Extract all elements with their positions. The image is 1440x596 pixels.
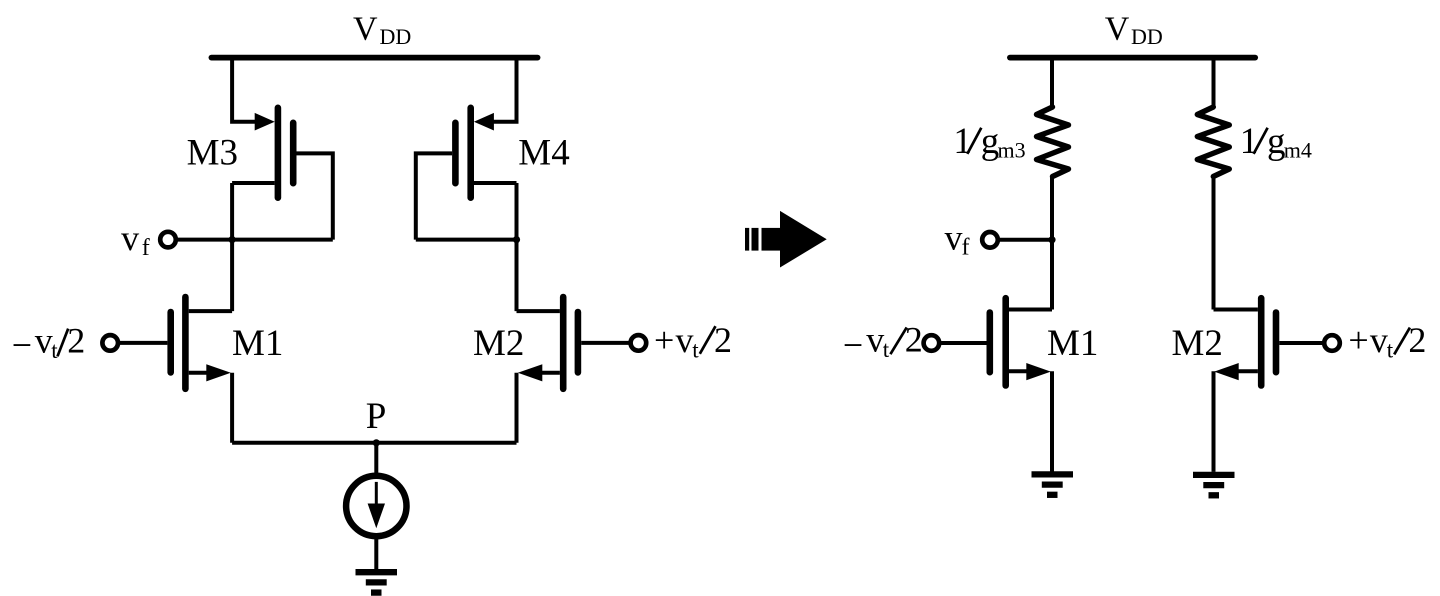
wire: -vt/2 to M1 gate xyxy=(120,341,167,345)
terminal -vt/2 (left) xyxy=(102,335,118,351)
svg-text:g: g xyxy=(981,121,1000,162)
wire: resistor 1/gm4 to M2 drain xyxy=(1212,177,1216,310)
svg-text:1: 1 xyxy=(953,121,972,162)
svg-text:v: v xyxy=(945,218,963,258)
transistor M2 xyxy=(518,297,578,389)
wire: node vf to M4 side xyxy=(416,238,517,242)
wire: node vf horizontal (left circuit) xyxy=(178,238,333,242)
svg-text:2: 2 xyxy=(905,320,923,360)
resistor 1/gm4 xyxy=(1197,107,1229,177)
terminal +vt/2 (right) xyxy=(1324,335,1340,351)
terminal vf (left) xyxy=(160,232,176,248)
svg-text:v: v xyxy=(866,320,884,360)
svg-text:t: t xyxy=(883,337,890,362)
transistor M3 xyxy=(255,108,294,198)
svg-text:M1: M1 xyxy=(1047,323,1098,364)
wire: M2 source to ground (right) xyxy=(1212,371,1216,472)
wire: M2 source down to tail node xyxy=(515,373,519,443)
junction node vf (right) xyxy=(1048,236,1055,243)
wire: node P to current source xyxy=(374,443,378,476)
svg-text:2: 2 xyxy=(1408,320,1426,360)
transistor M1 xyxy=(171,297,231,389)
wire: VDD to M4 source xyxy=(491,58,517,122)
wire: VDD to resistor 1/gm3 xyxy=(1050,58,1054,107)
svg-text:m3: m3 xyxy=(998,138,1026,163)
resistor 1/gm3 xyxy=(1037,107,1069,177)
svg-text:−: − xyxy=(843,325,863,365)
svg-text:v: v xyxy=(676,320,694,360)
svg-text:1: 1 xyxy=(1240,121,1259,162)
terminal vf (right) xyxy=(982,232,998,248)
transistor M4 xyxy=(455,108,494,198)
label 1/gm4 xyxy=(1240,121,1312,162)
wire: M2 gate to terminal xyxy=(581,341,629,345)
wire: M2 source lead (right) xyxy=(1233,369,1258,373)
wire: -vt/2 to M1 gate (right) xyxy=(941,341,986,345)
svg-text:+: + xyxy=(1348,320,1368,360)
svg-text:M4: M4 xyxy=(518,133,569,174)
svg-text:DD: DD xyxy=(380,24,412,49)
label VDD (right) xyxy=(1105,10,1163,49)
svg-text:+: + xyxy=(654,320,674,360)
junction node P xyxy=(373,439,380,446)
ground (M1 right) xyxy=(1032,474,1074,494)
label vf (left) xyxy=(121,218,150,261)
svg-text:M1: M1 xyxy=(232,323,283,364)
svg-text:V: V xyxy=(1105,10,1130,47)
wire: M3 gate to node vf xyxy=(297,153,333,239)
ground (tail current source) xyxy=(356,572,398,592)
label 1/gm3 xyxy=(953,121,1025,162)
terminal -vt/2 (right) xyxy=(924,335,940,351)
svg-text:v: v xyxy=(1370,320,1388,360)
label -vt/2 (right) xyxy=(843,320,923,365)
wire: M1 source down to tail node xyxy=(230,373,234,443)
svg-text:V: V xyxy=(353,10,378,47)
svg-text:f: f xyxy=(962,235,970,261)
label VDD (left) xyxy=(353,10,411,49)
wire: M4 drain / M2 drain vertical xyxy=(515,183,519,311)
svg-text:m4: m4 xyxy=(1284,138,1312,163)
wire: M2 drain lead xyxy=(517,309,560,313)
ground (M2 right) xyxy=(1193,475,1235,495)
svg-text:g: g xyxy=(1267,121,1286,162)
label +vt/2 (right) xyxy=(1348,320,1426,363)
wire: M4 gate to node vf xyxy=(416,153,452,239)
wire: VDD to M3 source xyxy=(232,58,258,122)
svg-text:DD: DD xyxy=(1131,24,1163,49)
wire: VDD to resistor 1/gm4 xyxy=(1212,58,1216,107)
wire: M2 source lead xyxy=(535,371,560,375)
wire: M2 gate to terminal (right) xyxy=(1279,341,1322,345)
wire: M3 drain lead xyxy=(232,181,275,185)
wire: vf terminal to node (right) xyxy=(1000,238,1052,242)
current source I xyxy=(346,476,406,536)
svg-text:t: t xyxy=(51,338,58,363)
svg-text:M2: M2 xyxy=(473,323,524,364)
junction node vf (left) xyxy=(229,236,236,243)
svg-text:−: − xyxy=(12,325,32,365)
label +vt/2 (left) xyxy=(654,320,732,363)
svg-text:2: 2 xyxy=(714,320,732,360)
svg-text:t: t xyxy=(1387,338,1394,363)
wire: resistor 1/gm3 to M1 drain xyxy=(1050,177,1054,310)
wire: M1 source lead xyxy=(189,371,214,375)
big implication arrow xyxy=(745,211,827,268)
transistor M1 (right) xyxy=(990,298,1051,385)
VDD rail (right circuit) xyxy=(1010,55,1255,61)
svg-text:t: t xyxy=(692,337,699,362)
svg-text:v: v xyxy=(35,321,53,361)
VDD rail (left circuit) xyxy=(211,55,537,61)
wire: current source to ground xyxy=(374,536,378,569)
svg-text:f: f xyxy=(142,235,150,261)
wire: M1 source lead (right) xyxy=(1009,369,1034,373)
wire: tail line node P xyxy=(232,441,516,445)
wire: M1 source to ground (right) xyxy=(1050,371,1054,472)
svg-text:P: P xyxy=(366,396,387,437)
label vf (right) xyxy=(945,218,970,261)
transistor M2 (right) xyxy=(1214,298,1276,385)
wire: M1 drain lead (right) xyxy=(1009,308,1052,312)
svg-text:v: v xyxy=(121,218,139,258)
wire: M3 drain / M1 drain vertical xyxy=(230,183,234,311)
svg-text:M2: M2 xyxy=(1172,323,1223,364)
svg-text:M3: M3 xyxy=(187,133,238,174)
wire: M4 drain lead xyxy=(474,181,517,185)
wire: M2 drain lead (right) xyxy=(1214,308,1258,312)
wire: M1 drain lead xyxy=(189,309,232,313)
svg-text:2: 2 xyxy=(67,321,85,361)
terminal +vt/2 (left) xyxy=(631,335,647,351)
junction node at M4 drain xyxy=(513,236,520,243)
label -vt/2 (left) xyxy=(12,321,86,365)
